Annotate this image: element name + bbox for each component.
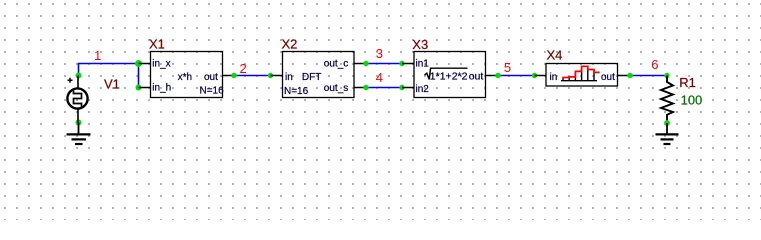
svg-text:1*1+2*2: 1*1+2*2 — [430, 71, 468, 83]
node dot net3 left — [363, 61, 368, 66]
svg-text:x*h: x*h — [178, 72, 192, 83]
svg-text:out: out — [204, 72, 218, 83]
V1 name label — [104, 76, 120, 91]
X3 name label — [412, 37, 428, 52]
subcircuit X2 (DFT) — [271, 52, 367, 98]
junction node 1 (top) — [135, 60, 142, 67]
node dot net2 right — [268, 73, 273, 78]
svg-text:X1: X1 — [149, 37, 165, 52]
node dot net2 left — [231, 73, 236, 78]
svg-text:in2: in2 — [416, 84, 430, 95]
subcircuit X3 (sqrt(1*1+2*2) magnitude) — [402, 52, 498, 98]
ground (below V1) — [67, 123, 91, 145]
X2 name label — [282, 37, 298, 52]
ground (below R1) — [656, 123, 679, 144]
X1 name label — [149, 37, 165, 52]
node 2 label — [240, 61, 247, 76]
node 3 label — [376, 46, 383, 61]
R1 value label 100 — [681, 93, 703, 108]
node dot net3 right — [399, 61, 404, 66]
svg-text:R1: R1 — [679, 75, 696, 90]
node 5 label — [504, 60, 511, 75]
node dot net4 left — [363, 85, 368, 90]
wire net 2 — [234, 75, 271, 77]
node dot net4 right — [399, 85, 404, 90]
svg-text:in: in — [550, 72, 558, 83]
svg-text:in_x: in_x — [152, 58, 170, 69]
node 1 label — [94, 48, 101, 63]
wire net 4 — [366, 87, 402, 89]
svg-text:in_h: in_h — [152, 83, 171, 94]
wire net 3 — [366, 63, 402, 65]
svg-text:X4: X4 — [547, 48, 563, 63]
svg-text:N=16: N=16 — [200, 86, 225, 97]
wire net 6 — [630, 75, 667, 77]
svg-text:1: 1 — [94, 48, 101, 63]
svg-text:X2: X2 — [282, 37, 298, 52]
node 4 label — [376, 70, 383, 85]
svg-text:N=16: N=16 — [284, 86, 309, 97]
svg-text:4: 4 — [376, 70, 383, 85]
svg-text:out: out — [469, 71, 484, 83]
X4 name label — [547, 48, 563, 63]
svg-text:out: out — [601, 72, 615, 83]
svg-text:X3: X3 — [412, 37, 428, 52]
svg-text:out_s: out_s — [324, 83, 348, 94]
node dot V1 plus terminal — [76, 73, 82, 79]
svg-text:in: in — [285, 72, 293, 83]
svg-text:DFT: DFT — [302, 72, 321, 83]
resistor R1 — [661, 76, 673, 124]
wire net 5 — [498, 75, 535, 77]
svg-text:6: 6 — [651, 57, 658, 72]
node dot R1 bottom — [664, 120, 670, 126]
node dot net5 left — [495, 73, 500, 78]
wire net 1 — [79, 64, 139, 88]
svg-text:100: 100 — [681, 93, 703, 108]
voltage source V1 — [67, 76, 87, 123]
R1 name label — [679, 75, 696, 90]
svg-text:in1: in1 — [416, 58, 430, 69]
node dot net5 right — [532, 73, 537, 78]
node dot net6 right (R1 top) — [664, 73, 669, 78]
subcircuit X1 (x*h correlator) — [139, 52, 235, 98]
node dot V1 minus terminal — [76, 120, 82, 126]
junction node 1 (bottom) — [136, 85, 142, 91]
node dot net6 left — [627, 73, 632, 78]
svg-text:5: 5 — [504, 60, 511, 75]
node 6 label — [651, 57, 658, 72]
svg-text:V1: V1 — [104, 76, 120, 91]
svg-text:3: 3 — [376, 46, 383, 61]
subcircuit X4 (histogram block) — [535, 64, 631, 87]
svg-text:out_c: out_c — [324, 59, 348, 70]
svg-text:2: 2 — [240, 61, 247, 76]
